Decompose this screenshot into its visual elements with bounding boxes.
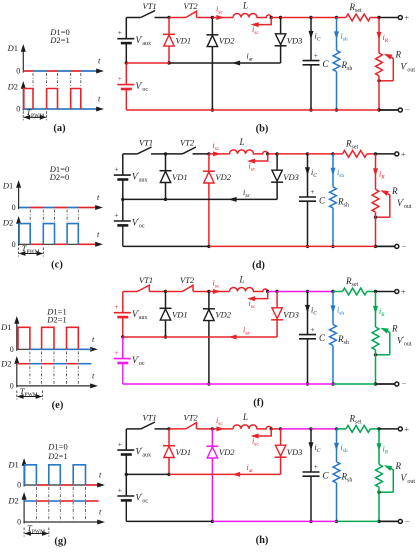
wire Vaux to mid (b) xyxy=(125,43,127,63)
wire Rset to node (d) xyxy=(367,153,376,155)
svg-text:VT2: VT2 xyxy=(180,137,195,147)
battery Vaux (b) xyxy=(117,38,134,40)
axis D2 (g) xyxy=(23,498,25,524)
svg-text:VD3: VD3 xyxy=(283,310,299,320)
capacitor C (d) xyxy=(299,196,316,198)
node R bottom (f) xyxy=(374,382,377,385)
svg-text:+: + xyxy=(404,12,409,22)
wire to plus terminal (h) xyxy=(379,428,398,430)
node VD3 top (h) xyxy=(279,427,282,430)
svg-text:+: + xyxy=(310,325,314,334)
wire R to bottom (b) xyxy=(378,76,380,110)
svg-text:VT2: VT2 xyxy=(184,412,199,422)
node VD3 top (f) xyxy=(275,290,278,293)
svg-text:+: + xyxy=(401,286,406,296)
wire mid to Voc (d) xyxy=(122,199,124,221)
wire left rail top (h) xyxy=(125,429,127,450)
wire mid rail left segment (d) xyxy=(123,198,166,200)
current arrow i_R (d) xyxy=(375,154,377,190)
wire mid rail left segment (h) xyxy=(126,473,169,475)
svg-text:VD2: VD2 xyxy=(219,447,235,457)
svg-text:L: L xyxy=(242,412,248,422)
wire bottom rail (d) xyxy=(123,245,209,247)
wire node to VD3 (b) xyxy=(271,17,280,19)
current arrow i_R (b) xyxy=(378,18,380,54)
current arrow i_sc return (h) xyxy=(253,429,271,436)
svg-text:0: 0 xyxy=(17,481,21,490)
battery Vaux (f) xyxy=(114,312,131,314)
wire Rsh to bottom (f) xyxy=(332,346,334,385)
wire Rsh node to Rset (h) xyxy=(337,428,347,430)
svg-text:(d): (d) xyxy=(252,260,265,271)
current arrow i_sc return (d) xyxy=(250,154,268,161)
svg-text:(e): (e) xyxy=(52,400,64,411)
diode VD1 (d) xyxy=(165,154,167,171)
svg-text:L: L xyxy=(239,275,245,285)
inductor L (d) xyxy=(230,150,268,154)
dash-dot guides (g) xyxy=(35,487,37,521)
svg-text:D1: D1 xyxy=(0,322,11,332)
axis D2 (a) xyxy=(22,87,24,111)
wire Rset to node (h) xyxy=(370,428,379,430)
node C bottom (b) xyxy=(309,108,312,111)
svg-text:+: + xyxy=(314,462,318,471)
resistor Rsh (b) xyxy=(333,51,340,72)
wire Rsh node to Rset (b) xyxy=(337,17,347,19)
current arrow i_C (d) xyxy=(307,154,309,197)
svg-text:(h): (h) xyxy=(256,535,269,546)
node R bottom (h) xyxy=(377,520,380,523)
svg-text:VD2: VD2 xyxy=(215,172,231,182)
node R top (b) xyxy=(377,16,380,19)
wire bottom rail (h) xyxy=(126,520,212,522)
axis D2 (e) xyxy=(16,362,18,387)
node C bottom (h) xyxy=(309,520,312,523)
wire C to bottom (b) xyxy=(310,65,312,110)
svg-text:VT1: VT1 xyxy=(143,412,157,422)
rheostat R (f) xyxy=(372,327,379,350)
node Af (VD1 top) xyxy=(164,290,167,293)
svg-text:0: 0 xyxy=(17,518,21,527)
minus terminal (h) xyxy=(398,519,402,523)
node R top (f) xyxy=(374,290,377,293)
wire top rail C to Rsh (d) xyxy=(308,153,334,155)
node VD1 bottom (h) xyxy=(167,473,170,476)
node VD2 bottom (f) xyxy=(207,382,210,385)
svg-text:0: 0 xyxy=(12,240,16,249)
svg-text:+: + xyxy=(114,302,118,311)
wire top rail left (d) xyxy=(123,153,137,155)
diode VD2 (d) xyxy=(208,154,210,171)
switch VT2 (f) xyxy=(166,291,183,293)
plus terminal (f) xyxy=(395,290,399,294)
wire mid rail right segment with i_ar (d) xyxy=(166,198,278,200)
node VD3 top (b) xyxy=(279,16,282,19)
svg-text:(g): (g) xyxy=(54,536,67,547)
wire Rsh node to Rset (f) xyxy=(333,291,343,293)
T_PWM interval marker (g) xyxy=(23,528,25,537)
svg-text:D1: D1 xyxy=(7,460,18,470)
svg-text:(a): (a) xyxy=(53,123,66,134)
current arrow i_C (f) xyxy=(307,292,309,335)
svg-text:D1: D1 xyxy=(2,181,13,191)
resistor Rset (d) xyxy=(343,151,367,158)
svg-text:D2: D2 xyxy=(0,359,11,369)
wire top rail left (b) xyxy=(126,17,140,19)
svg-text:(b): (b) xyxy=(256,124,269,135)
svg-text:VD2: VD2 xyxy=(215,310,231,320)
svg-text:+: + xyxy=(401,149,406,159)
svg-text:+: + xyxy=(114,210,118,219)
trace D1 (g) xyxy=(36,484,48,486)
wire left rail top (d) xyxy=(122,154,124,175)
wire bottom rail (f) xyxy=(123,383,333,385)
wire R to bottom (d) xyxy=(375,212,377,246)
current arrow i_C (h) xyxy=(310,429,312,472)
node Rsh top (b) xyxy=(335,16,338,19)
svg-text:D2: D2 xyxy=(2,218,13,228)
axis D1 (g) xyxy=(23,464,25,487)
current arrow i_sh (b) xyxy=(336,18,338,51)
capacitor C (h) xyxy=(303,471,320,473)
wire left rail top (b) xyxy=(125,18,127,39)
rheostat R (b) xyxy=(376,53,383,76)
dash-dot guides (c) xyxy=(29,210,31,223)
svg-text:D1: D1 xyxy=(7,43,18,53)
node Rsh top (d) xyxy=(331,152,334,155)
svg-text:D2=1: D2=1 xyxy=(47,451,67,461)
wire mid rail right segment with i_ar (f) xyxy=(166,336,278,338)
wire R to bottom (h) xyxy=(378,487,380,521)
wire top rail VD3 to C (h) xyxy=(281,428,311,430)
node mid-left (d) xyxy=(121,198,124,201)
svg-text:L: L xyxy=(242,1,248,11)
svg-text:VD1: VD1 xyxy=(176,447,192,457)
battery Voc (h) xyxy=(117,495,134,497)
axis D2 (c) xyxy=(18,222,20,246)
node Rsh bottom (h) xyxy=(335,520,338,523)
node VD1 bottom (f) xyxy=(164,335,167,338)
node R top (h) xyxy=(377,427,380,430)
capacitor C (b) xyxy=(303,60,320,62)
wire mid to Voc (f) xyxy=(122,337,124,359)
T_PWM interval marker (c) xyxy=(18,248,20,257)
wire C to bottom (d) xyxy=(307,201,309,246)
switch VT1 (f) xyxy=(137,285,149,291)
diode VD3 (h) xyxy=(280,429,282,445)
battery Voc (d) xyxy=(114,220,131,222)
wire Rset to node (f) xyxy=(367,291,376,293)
svg-text:+: + xyxy=(114,165,118,174)
node R wiper bottom (b) xyxy=(377,79,380,82)
diode VD1 (f) xyxy=(165,292,167,309)
svg-text:D2: D2 xyxy=(7,496,18,506)
svg-text:+: + xyxy=(310,187,314,196)
svg-text:VD3: VD3 xyxy=(287,36,303,46)
node Bf (VD2 top) xyxy=(207,290,210,293)
wire bottom rail (b) xyxy=(126,109,379,111)
wire mid rail right segment with i_ar (b) xyxy=(169,62,281,64)
node R wiper bottom (h) xyxy=(377,491,380,494)
node R wiper bottom (d) xyxy=(374,216,377,219)
axis D1 (c) xyxy=(18,186,20,209)
svg-text:L: L xyxy=(239,137,245,147)
svg-text:0: 0 xyxy=(12,203,16,212)
svg-text:D2=1: D2=1 xyxy=(49,35,69,45)
switch VT1 (d) xyxy=(137,147,151,154)
minus terminal (f) xyxy=(395,382,399,386)
current arrow i_sc forward (h) xyxy=(212,428,233,430)
svg-text:VT2: VT2 xyxy=(180,275,195,285)
svg-text:+: + xyxy=(118,485,122,494)
wire to plus terminal (b) xyxy=(379,17,398,19)
node Ad (VD1 top) xyxy=(164,152,167,155)
resistor Rset (b) xyxy=(346,14,370,21)
trace D1 (c) xyxy=(19,207,30,209)
svg-text:C: C xyxy=(323,59,330,69)
switch VT2 (h) xyxy=(169,428,186,430)
plus terminal (d) xyxy=(395,152,399,156)
wire to minus terminal (f) xyxy=(376,383,395,385)
node Rsh bottom (b) xyxy=(335,108,338,111)
wire node to VD3 (f) xyxy=(268,291,277,293)
svg-text:D2=1: D2=1 xyxy=(46,315,66,325)
wire node to VD3 (h) xyxy=(271,428,280,430)
node mid-left (b) xyxy=(125,61,128,64)
wire top rail C to Rsh (h) xyxy=(311,428,337,430)
node mid-left (h) xyxy=(125,473,128,476)
wire Rsh to bottom (d) xyxy=(332,208,334,247)
current arrow i_R (f) xyxy=(375,292,377,328)
wire C to bottom (f) xyxy=(307,339,309,384)
wire to minus terminal (h) xyxy=(379,520,398,522)
node after L (f) xyxy=(266,290,269,293)
resistor Rsh (h) xyxy=(333,462,340,483)
svg-text:0: 0 xyxy=(16,67,20,76)
wire to plus terminal (d) xyxy=(376,153,395,155)
svg-text:VD1: VD1 xyxy=(172,172,188,182)
svg-text:VD1: VD1 xyxy=(176,36,192,46)
trace D2 (c) xyxy=(30,243,43,245)
diode VD1 (b) xyxy=(168,18,170,35)
capacitor C (f) xyxy=(299,334,316,336)
svg-text:+: + xyxy=(114,348,118,357)
minus terminal (b) xyxy=(398,108,402,112)
node C top (b) xyxy=(309,16,312,19)
node R bottom (b) xyxy=(377,108,380,111)
current arrow i_C (b) xyxy=(310,18,312,61)
trace D1 (e) xyxy=(30,348,92,350)
wire top rail VD3 to C (f) xyxy=(277,291,307,293)
switch VT1 (h) xyxy=(141,422,155,429)
wire top rail left (h) xyxy=(126,428,140,430)
diode VD3 (f) xyxy=(276,292,278,308)
wire top rail VD3 to C (d) xyxy=(277,153,307,155)
wire C to bottom (h) xyxy=(310,476,312,521)
wire top rail C to Rsh (b) xyxy=(311,17,337,19)
wire Voc to bottom (h) xyxy=(125,501,127,521)
node Bb (VD2 top) xyxy=(211,16,214,19)
wire Vaux to mid (d) xyxy=(122,180,124,200)
wire mid rail right segment with i_ar (h) xyxy=(169,473,281,475)
battery Voc (b) xyxy=(117,84,134,86)
node Rsh top (h) xyxy=(335,427,338,430)
node Bh (VD2 top) xyxy=(211,427,214,430)
svg-text:0: 0 xyxy=(16,105,20,114)
svg-text:+: + xyxy=(118,440,122,449)
dash-dot guides (a) xyxy=(32,73,34,88)
wire node to VD3 (d) xyxy=(268,153,277,155)
node VD2 bottom (b) xyxy=(211,108,214,111)
node after L (h) xyxy=(270,427,273,430)
svg-text:VD2: VD2 xyxy=(219,36,235,46)
wire Voc to bottom (d) xyxy=(122,226,124,246)
svg-text:(f): (f) xyxy=(253,398,264,409)
svg-text:+: + xyxy=(314,51,318,60)
current arrow i_sc return (f) xyxy=(250,292,268,299)
rheostat R (h) xyxy=(376,464,383,487)
inductor L (b) xyxy=(233,14,271,18)
node VD2 bottom (h) xyxy=(211,520,214,523)
wiper arrow of R (d) xyxy=(386,193,390,218)
plus terminal (h) xyxy=(398,427,402,431)
svg-text:+: + xyxy=(118,74,122,83)
wire Voc to bottom (b) xyxy=(125,90,127,110)
wire top rail left (f) xyxy=(123,291,137,293)
wiper arrow of R (f) xyxy=(386,330,390,355)
wire top rail C to Rsh (f) xyxy=(308,291,334,293)
wire left rail top (f) xyxy=(122,292,124,313)
minus terminal (d) xyxy=(395,244,399,248)
diode VD3 (b) xyxy=(280,18,282,34)
inductor L (f) xyxy=(230,288,268,292)
switch VT2 (d) xyxy=(166,153,183,155)
wire to minus terminal (b) xyxy=(379,109,398,111)
svg-text:−: − xyxy=(405,516,410,526)
svg-text:D2: D2 xyxy=(7,82,18,92)
wire top rail VD3 to C (b) xyxy=(281,17,311,19)
diode VD2 (f) xyxy=(208,292,210,309)
wire Voc to bottom (f) xyxy=(122,364,124,384)
wiper arrow of R (h) xyxy=(390,468,394,493)
trace D1 (a) xyxy=(23,70,33,72)
wire to minus terminal (d) xyxy=(376,245,395,247)
wire mid to Voc (b) xyxy=(125,63,127,85)
current arrow i_sh (f) xyxy=(332,292,334,325)
svg-text:+: + xyxy=(118,28,122,37)
svg-text:VT2: VT2 xyxy=(184,1,199,11)
wire mid rail left segment (f) xyxy=(123,336,166,338)
axis D1 (e) xyxy=(16,322,18,351)
svg-text:VD1: VD1 xyxy=(172,310,188,320)
svg-text:+: + xyxy=(404,424,409,434)
node mid-left (f) xyxy=(121,335,124,338)
svg-text:(c): (c) xyxy=(51,260,63,271)
svg-text:C: C xyxy=(323,470,330,480)
T_PWM interval marker (e) xyxy=(16,391,18,400)
svg-text:0: 0 xyxy=(10,381,14,390)
svg-text:C: C xyxy=(319,333,326,343)
node R wiper bottom (f) xyxy=(374,353,377,356)
trace D2 (g) xyxy=(24,500,36,502)
svg-text:−: − xyxy=(402,241,407,251)
resistor Rsh (d) xyxy=(330,187,337,208)
node after L (b) xyxy=(270,16,273,19)
svg-text:VT1: VT1 xyxy=(143,1,157,11)
battery Voc (f) xyxy=(114,358,131,360)
wire Rsh node to Rset (d) xyxy=(333,153,343,155)
node Ab (VD1 top) xyxy=(167,16,170,19)
wire mid to Voc (h) xyxy=(125,474,127,496)
svg-text:−: − xyxy=(405,105,410,115)
dash-dot guides (e) xyxy=(29,352,31,386)
current arrow i_sh (d) xyxy=(332,154,334,187)
node Rsh bottom (d) xyxy=(331,245,334,248)
node R bottom (d) xyxy=(374,245,377,248)
current arrow i_sc return (b) xyxy=(253,18,271,25)
trace D2 (e) xyxy=(17,363,18,365)
svg-text:VT1: VT1 xyxy=(139,275,153,285)
diode VD2 (h) xyxy=(211,429,213,446)
svg-text:C: C xyxy=(319,195,326,205)
svg-text:D2=0: D2=0 xyxy=(49,172,69,182)
current arrow i_sc forward (d) xyxy=(209,153,230,155)
node C top (d) xyxy=(306,152,309,155)
wire mid rail left segment (b) xyxy=(126,62,169,64)
svg-text:VD3: VD3 xyxy=(287,447,303,457)
svg-text:D1=0: D1=0 xyxy=(47,442,67,452)
trace D2 (a) xyxy=(23,108,96,110)
battery Vaux (h) xyxy=(117,449,134,451)
plus terminal (b) xyxy=(398,16,402,20)
wiper arrow of R (b) xyxy=(390,56,394,81)
svg-text:−: − xyxy=(402,379,407,389)
svg-text:VD3: VD3 xyxy=(283,172,299,182)
battery Vaux (d) xyxy=(114,174,131,176)
node VD1 bottom (b) xyxy=(167,61,170,64)
diode VD1 (h) xyxy=(168,429,170,446)
node after L (d) xyxy=(266,152,269,155)
rheostat R (d) xyxy=(372,189,379,212)
svg-text:0: 0 xyxy=(10,345,14,354)
node Rsh top (f) xyxy=(331,290,334,293)
node C bottom (d) xyxy=(306,245,309,248)
wire R to bottom (f) xyxy=(375,350,377,384)
svg-text:R: R xyxy=(395,50,402,60)
wire Rset to node (b) xyxy=(370,17,379,19)
node VD2 bottom (d) xyxy=(207,245,210,248)
resistor Rset (f) xyxy=(343,288,367,295)
svg-text:R: R xyxy=(391,186,398,196)
wire Rsh to bottom (h) xyxy=(336,483,338,522)
node C top (h) xyxy=(309,427,312,430)
inductor L (h) xyxy=(233,425,271,429)
svg-text:R: R xyxy=(395,461,402,471)
wire to plus terminal (f) xyxy=(376,291,395,293)
svg-text:VT1: VT1 xyxy=(139,137,153,147)
node Bd (VD2 top) xyxy=(207,152,210,155)
current arrow i_R (h) xyxy=(378,429,380,465)
node R top (d) xyxy=(374,152,377,155)
node Rsh bottom (f) xyxy=(331,382,334,385)
switch VT2 (b) xyxy=(169,17,186,19)
wire Rsh to bottom (b) xyxy=(336,72,338,111)
T_PWM interval marker (a) xyxy=(22,111,24,120)
resistor Rset (h) xyxy=(346,426,370,433)
current arrow i_sc forward (f) xyxy=(209,291,230,293)
wire Vaux to mid (f) xyxy=(122,317,124,337)
switch VT1 (b) xyxy=(141,11,155,18)
